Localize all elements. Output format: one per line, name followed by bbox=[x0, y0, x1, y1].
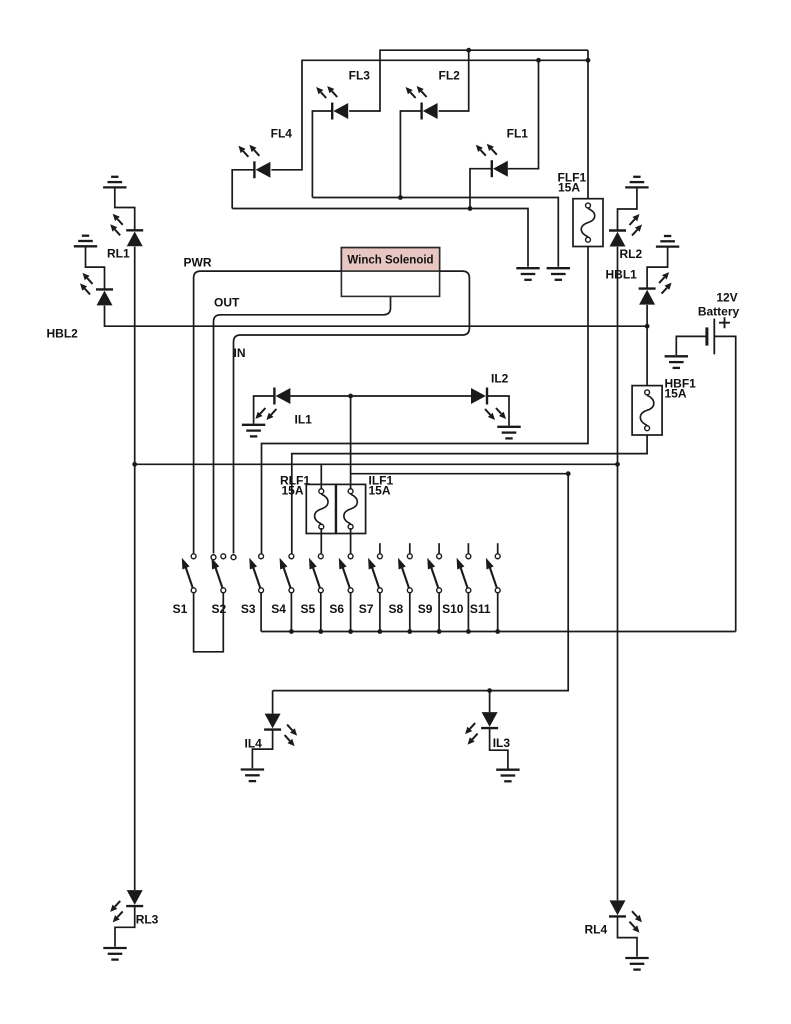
wire RL3 to ground bbox=[115, 906, 135, 947]
label IL1 bbox=[295, 413, 313, 427]
LED FL3 bbox=[316, 86, 348, 120]
svg-text:RL2: RL2 bbox=[620, 247, 643, 261]
svg-text:IN: IN bbox=[234, 346, 246, 360]
wire IN bbox=[234, 271, 470, 553]
svg-text:HBL2: HBL2 bbox=[47, 327, 79, 341]
ground IL3 bbox=[496, 770, 519, 782]
label ILF1 bbox=[369, 474, 394, 498]
LED RL1 bbox=[110, 214, 143, 247]
svg-text:S11: S11 bbox=[470, 602, 491, 616]
LED FL4 bbox=[238, 145, 270, 179]
wire stub above S7 bbox=[379, 543, 381, 553]
label IN bbox=[234, 346, 246, 360]
wire S7 to bus bbox=[379, 593, 381, 631]
label IL4 bbox=[245, 736, 263, 750]
label RL1 bbox=[107, 246, 130, 260]
svg-text:HBL1: HBL1 bbox=[606, 268, 638, 282]
node junction line1/line2 at FLF1 drop bbox=[586, 58, 591, 63]
node junction line2-FL1 bbox=[536, 58, 541, 63]
wire RL4 to ground bbox=[618, 916, 638, 956]
node junction RL feed at RL1 bbox=[132, 462, 137, 467]
node junction FL1 on line B bbox=[468, 206, 473, 211]
node bus junction S8 bbox=[407, 629, 412, 634]
fuse HBF1 bbox=[632, 386, 662, 435]
wire S1-S2 link bbox=[194, 593, 224, 652]
label S9 bbox=[418, 602, 433, 616]
svg-text:RL3: RL3 bbox=[136, 913, 159, 927]
svg-text:RL4: RL4 bbox=[585, 923, 608, 937]
svg-text:15A: 15A bbox=[665, 387, 687, 401]
label FL4 bbox=[271, 127, 293, 141]
LED IL3 bbox=[465, 712, 498, 745]
wire return line B to ground bbox=[232, 209, 528, 267]
wire ground to HBL1 LED bbox=[647, 247, 668, 289]
switch S3 bbox=[249, 554, 263, 593]
wire IL1-IL2 anode line bbox=[290, 395, 471, 397]
wire stub above S9 bbox=[438, 543, 440, 553]
label HBL1 bbox=[606, 268, 638, 282]
wire S3 to bus bbox=[260, 593, 262, 631]
label FL3 bbox=[349, 69, 371, 83]
wire OUT bbox=[214, 296, 391, 553]
winch solenoid box body bbox=[341, 248, 439, 297]
wire RLF1 top branch bbox=[320, 464, 322, 490]
label S8 bbox=[389, 602, 404, 616]
LED IL2 bbox=[471, 388, 506, 421]
wire RL2 long vertical to RL4 bbox=[617, 247, 619, 901]
wire RL feed line bbox=[135, 463, 618, 465]
label FL2 bbox=[439, 69, 461, 83]
svg-text:S5: S5 bbox=[301, 602, 316, 616]
LED IL1 bbox=[255, 388, 290, 421]
svg-text:S3: S3 bbox=[241, 602, 256, 616]
LED IL4 bbox=[264, 714, 297, 747]
node bus junction S10 bbox=[466, 629, 471, 634]
wire battery positive to switch bus bbox=[714, 336, 735, 631]
LED FL1 bbox=[476, 144, 508, 178]
wire HBF1 bottom to S4 bbox=[292, 435, 647, 554]
node bus junction S6 bbox=[348, 629, 353, 634]
fuse ILF1 bbox=[336, 484, 366, 533]
svg-text:15A: 15A bbox=[558, 180, 580, 194]
label RLF1 bbox=[280, 474, 310, 498]
svg-text:12V: 12V bbox=[716, 291, 737, 305]
svg-text:FL3: FL3 bbox=[349, 69, 371, 83]
svg-text:S4: S4 bbox=[271, 602, 286, 616]
switch S4 bbox=[280, 554, 294, 593]
wire S4 to bus bbox=[290, 593, 292, 631]
label RL4 bbox=[585, 923, 608, 937]
wire return line A to ground bbox=[312, 198, 558, 267]
wire IL1 cathode to ground bbox=[254, 396, 275, 424]
wire battery negative to ground bbox=[676, 336, 707, 355]
wire HBL1 to HBF1 fuse bbox=[646, 305, 648, 386]
label Winch Solenoid bbox=[347, 255, 433, 267]
svg-text:IL3: IL3 bbox=[493, 736, 511, 750]
wire FLF1 bottom to S3 bbox=[262, 247, 589, 554]
battery positive plate bbox=[713, 319, 715, 355]
wire RLF1 bottom to S5 bbox=[320, 528, 322, 554]
svg-text:S7: S7 bbox=[359, 602, 374, 616]
wire FL1 anode riser bbox=[508, 60, 539, 168]
svg-text:FL1: FL1 bbox=[507, 127, 529, 141]
svg-text:FL2: FL2 bbox=[439, 69, 461, 83]
wire FL1 cathode drop bbox=[470, 169, 492, 209]
wire switch bus bbox=[261, 631, 736, 633]
wire IL4 drop bbox=[272, 691, 274, 714]
LED RL3 bbox=[110, 890, 143, 922]
node junction IL3 tap bbox=[487, 688, 492, 693]
wire stub above S8 bbox=[409, 543, 411, 553]
ground RL3 bbox=[103, 948, 126, 960]
svg-text:IL1: IL1 bbox=[295, 413, 313, 427]
wire S11 to bus bbox=[497, 593, 499, 631]
battery plus sign bbox=[719, 317, 730, 328]
wire HBL2 to HBL1 horizontal bbox=[105, 306, 648, 327]
ground above HBL2 bbox=[74, 236, 97, 247]
label RL3 bbox=[136, 913, 159, 927]
ground IL1 bbox=[242, 425, 265, 437]
wire RL1 long vertical to RL3 bbox=[134, 247, 136, 891]
node bus junction S11 bbox=[495, 629, 500, 634]
fuse RLF1 bbox=[306, 484, 336, 533]
LED FL2 bbox=[406, 86, 438, 120]
ground battery bbox=[665, 356, 688, 368]
svg-text:S8: S8 bbox=[389, 602, 404, 616]
label S4 bbox=[271, 602, 286, 616]
switch S5 bbox=[309, 554, 323, 593]
wire S10 to bus bbox=[467, 593, 469, 631]
ground RL4 bbox=[625, 958, 648, 970]
label S10 bbox=[442, 602, 464, 616]
switch S6 bbox=[339, 554, 353, 593]
ground above RL1 bbox=[103, 177, 126, 188]
switch S1 bbox=[182, 554, 196, 593]
svg-text:FL4: FL4 bbox=[271, 127, 293, 141]
wire: top bus line 1 with FL3 anode drop bbox=[349, 50, 588, 111]
wire FL3 cathode to return line A bbox=[312, 111, 332, 198]
wire PWR bbox=[194, 271, 342, 553]
switch S11 bbox=[486, 554, 500, 593]
wire S9 to bus bbox=[438, 593, 440, 631]
node bus junction S7 bbox=[378, 629, 383, 634]
wire IL3 to ground bbox=[490, 728, 508, 768]
node junction IL feed bbox=[348, 394, 353, 399]
wire ground to RL1 LED bbox=[115, 187, 135, 230]
label S6 bbox=[329, 602, 344, 616]
wire S5 to bus bbox=[320, 593, 322, 631]
label S11 bbox=[470, 602, 491, 616]
ground IL2 bbox=[497, 427, 520, 439]
battery negative plate bbox=[705, 327, 708, 345]
switch S10 bbox=[457, 554, 471, 593]
svg-text:S1: S1 bbox=[173, 602, 188, 616]
ground for line B bbox=[516, 268, 539, 280]
label S5 bbox=[301, 602, 316, 616]
wire IL4 to ground bbox=[252, 730, 272, 769]
label S7 bbox=[359, 602, 374, 616]
label FL1 bbox=[507, 127, 529, 141]
node bus junction S4 bbox=[289, 629, 294, 634]
switch S8 bbox=[398, 554, 412, 593]
svg-text:OUT: OUT bbox=[214, 296, 240, 310]
wire stub above S11 bbox=[497, 543, 499, 553]
ground above RL2 bbox=[625, 177, 648, 188]
node: line1 to FLF1 drop bbox=[587, 50, 589, 199]
label OUT bbox=[214, 296, 240, 310]
wire ILF1 top branch bbox=[350, 396, 352, 490]
wire S8 to bus bbox=[409, 593, 411, 631]
svg-text:15A: 15A bbox=[282, 484, 304, 498]
svg-text:S6: S6 bbox=[329, 602, 344, 616]
LED RL2 bbox=[609, 214, 642, 247]
node bus junction S9 bbox=[437, 629, 442, 634]
fuse FLF1 bbox=[573, 199, 603, 247]
svg-text:Battery: Battery bbox=[698, 305, 740, 319]
wire ILF1 bottom to S6 bbox=[350, 528, 352, 554]
node IN terminal bbox=[231, 555, 236, 560]
label S3 bbox=[241, 602, 256, 616]
switch S9 bbox=[427, 554, 441, 593]
wire S6 to bus bbox=[350, 593, 352, 631]
LED RL4 bbox=[609, 900, 642, 932]
wire FL2 anode riser bbox=[439, 50, 469, 111]
label RL2 bbox=[620, 247, 643, 261]
label HBF1 bbox=[665, 377, 697, 401]
svg-text:PWR: PWR bbox=[184, 256, 212, 270]
node junction IL distribution bbox=[566, 471, 571, 476]
wire IL3 drop bbox=[489, 691, 491, 713]
ground above HBL1 bbox=[656, 236, 679, 247]
LED HBL1 bbox=[639, 272, 672, 305]
label IL3 bbox=[493, 736, 511, 750]
node bus junction S5 bbox=[318, 629, 323, 634]
svg-text:15A: 15A bbox=[369, 484, 391, 498]
wire stub above S10 bbox=[467, 543, 469, 553]
wire IL2 cathode to ground bbox=[487, 396, 509, 426]
svg-text:S9: S9 bbox=[418, 602, 433, 616]
node junction RL feed at RL2 bbox=[615, 462, 620, 467]
winch solenoid header bbox=[341, 248, 439, 272]
ground IL4 bbox=[241, 770, 264, 782]
svg-text:S10: S10 bbox=[442, 602, 464, 616]
label IL2 bbox=[491, 371, 509, 385]
node junction line1-FL2 bbox=[466, 48, 471, 53]
label 12V Battery bbox=[698, 291, 740, 319]
switch S7 bbox=[368, 554, 382, 593]
node OUT terminal bbox=[211, 555, 216, 560]
wire ground to HBL2 LED bbox=[86, 246, 105, 289]
wire: top bus line 2 with FL4 anode drop bbox=[271, 60, 588, 170]
svg-text:IL4: IL4 bbox=[245, 736, 263, 750]
ground for line A bbox=[547, 268, 570, 280]
svg-text:S2: S2 bbox=[212, 602, 227, 616]
svg-text:Winch Solenoid: Winch Solenoid bbox=[347, 255, 433, 267]
wire ground to RL2 LED bbox=[618, 187, 637, 230]
switch S2 bbox=[212, 554, 226, 593]
wire IL distribution line bbox=[273, 474, 569, 691]
label HBL2 bbox=[47, 327, 79, 341]
label FLF1 bbox=[558, 170, 587, 194]
svg-text:RL1: RL1 bbox=[107, 246, 130, 260]
label PWR bbox=[184, 256, 212, 270]
LED HBL2 bbox=[80, 273, 113, 306]
label S1 bbox=[173, 602, 188, 616]
node junction HBL line at HBL1 bbox=[645, 324, 650, 329]
wire FL4 cathode to return line B bbox=[232, 170, 254, 209]
wire FL2 cathode drop bbox=[400, 111, 421, 198]
label S2 bbox=[212, 602, 227, 616]
node junction FL2 on line A bbox=[398, 195, 403, 200]
svg-text:IL2: IL2 bbox=[491, 371, 509, 385]
